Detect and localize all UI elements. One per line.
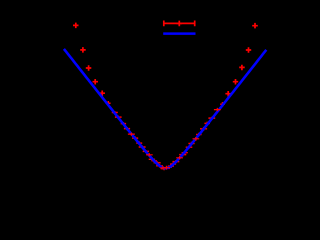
data point P1 with x-error bar: [73, 23, 79, 29]
data point S27 with x-error bar: [193, 137, 200, 141]
data point S6 with x-error bar: [149, 158, 155, 161]
blue fit curve (smooth hyperbola V): [64, 49, 266, 168]
data point S14 with x-error bar: [121, 122, 126, 125]
data point S18 with x-error bar: [166, 165, 172, 169]
data point P6 with x-error bar: [252, 23, 258, 29]
data point P10 with x-error bar: [225, 91, 231, 97]
data point P7 with x-error bar: [246, 47, 251, 53]
data point S7 with x-error bar: [146, 153, 153, 156]
data point S22 with x-error bar: [176, 156, 183, 159]
data point M1 with x-error bar: [106, 101, 111, 106]
data point S19 with x-error bar: [168, 164, 174, 168]
data point S29 with x-error bar: [200, 127, 207, 131]
data point S11 with x-error bar: [132, 136, 138, 140]
data point P9 with x-error bar: [233, 79, 238, 85]
data point S17 with x-error bar: [163, 166, 170, 170]
data point S32 with x-error bar: [214, 108, 221, 111]
red data points: dense region (under fit line): [112, 111, 215, 170]
data point S28 with x-error bar: [196, 133, 202, 136]
data point S24 with x-error bar: [182, 151, 188, 154]
data point S31 with x-error bar: [208, 117, 215, 120]
data point S5 with x-error bar: [152, 159, 157, 163]
red data points: outer branches: [73, 23, 258, 107]
data point S16 with x-error bar: [112, 111, 118, 114]
red data points: dense region (over fit line): [128, 108, 221, 170]
data point S12 with x-error bar: [128, 133, 135, 136]
data point S3 with x-error bar: [156, 164, 163, 168]
data point P3 with x-error bar: [86, 65, 92, 71]
data point S21 with x-error bar: [173, 160, 180, 163]
data point S8 with x-error bar: [143, 150, 149, 153]
data point S1 with x-error bar: [161, 167, 168, 170]
data point P2 with x-error bar: [80, 47, 86, 53]
data point S10 with x-error bar: [136, 141, 142, 144]
data point P5 with x-error bar: [100, 91, 106, 97]
data point S23 with x-error bar: [179, 153, 186, 157]
data point S20 with x-error bar: [170, 163, 176, 166]
data point M2 with x-error bar: [220, 102, 225, 107]
data point P4 with x-error bar: [93, 79, 99, 85]
data point S9 with x-error bar: [139, 145, 146, 148]
legend: blue fit line sample: [163, 32, 195, 35]
data point S4 with x-error bar: [154, 161, 161, 164]
data point S30 with x-error bar: [204, 122, 210, 126]
data point S15 with x-error bar: [115, 116, 122, 119]
data point S13 with x-error bar: [124, 127, 130, 130]
data point S25 with x-error bar: [186, 146, 193, 149]
legend: red data sample (x-error bar with caps and plus marker): [164, 21, 196, 27]
data point S26 with x-error bar: [188, 142, 194, 146]
data point P8 with x-error bar: [239, 65, 245, 71]
data point S2 with x-error bar: [160, 166, 166, 169]
